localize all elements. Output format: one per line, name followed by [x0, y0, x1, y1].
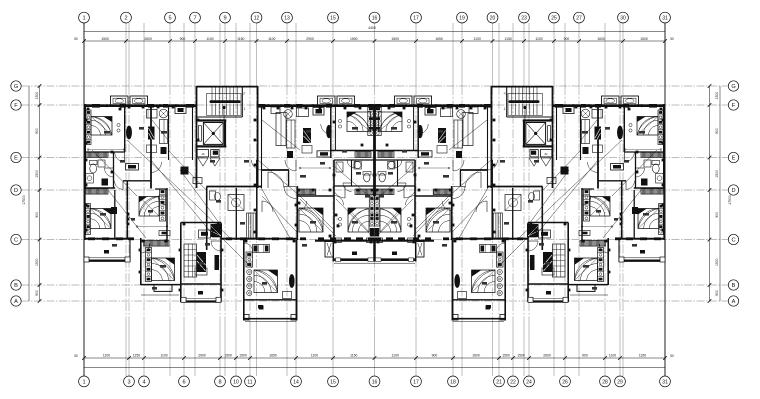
svg-text:16: 16 — [372, 16, 378, 22]
living column east wall — [220, 223, 222, 303]
door bedroom1 — [115, 152, 125, 162]
grid bubble 4 bottom — [139, 376, 150, 387]
column label blob — [258, 305, 263, 309]
tall column box — [283, 292, 292, 299]
wardrobe bedroom2 — [160, 189, 166, 221]
row bubble A left — [11, 296, 21, 306]
svg-text:22: 22 — [510, 379, 516, 385]
grid bubble 17 top — [411, 12, 422, 23]
grid line G — [22, 85, 729, 87]
balcony label blob — [104, 250, 109, 254]
bedroom north wall center-left — [297, 195, 334, 197]
axis wall upper — [373, 105, 375, 196]
svg-text:1150: 1150 — [505, 37, 512, 41]
switch pair bedroom1 — [117, 123, 120, 126]
grid bubble 15 top — [328, 12, 339, 23]
TV lens on wall — [126, 126, 131, 139]
grid bubble 15 bottom — [328, 376, 339, 387]
row C wall center-west — [221, 238, 297, 240]
bedroom2 east wall — [166, 188, 168, 240]
sofa set living west — [147, 110, 158, 119]
svg-text:27: 27 — [576, 16, 582, 22]
tall column balcony blob — [259, 306, 264, 310]
wardrobe row axis bedroom — [355, 189, 375, 195]
wc fixture — [210, 191, 216, 200]
svg-text:1500: 1500 — [715, 258, 719, 266]
bookshelf living column — [184, 244, 197, 277]
dining wall west unit — [123, 180, 151, 182]
plant center dark — [287, 151, 293, 158]
svg-text:B: B — [732, 283, 736, 289]
svg-text:8: 8 — [218, 379, 221, 385]
nightstand bedroom1b — [111, 207, 117, 214]
outer west wall — [84, 104, 86, 189]
svg-text:900: 900 — [715, 290, 719, 296]
svg-text:900: 900 — [582, 354, 588, 358]
svg-text:C: C — [14, 238, 18, 244]
svg-text:F: F — [732, 103, 736, 109]
outer west wall lower — [84, 189, 86, 240]
stair tower outer walls — [197, 86, 259, 88]
grid bubble 22 bottom — [508, 376, 519, 387]
armchair center lower — [302, 146, 312, 154]
grid line 31 (thick outer) — [664, 23, 666, 376]
grid bubble 20 top — [487, 12, 498, 23]
svg-text:G: G — [14, 84, 18, 90]
grid bubble 21 bottom — [494, 376, 505, 387]
svg-text:25: 25 — [551, 16, 557, 22]
svg-text:4400: 4400 — [368, 26, 376, 30]
grid bubble 25 top — [549, 12, 560, 23]
row E wall at core — [207, 186, 263, 188]
svg-text:1100: 1100 — [474, 37, 481, 41]
svg-text:1500: 1500 — [517, 354, 525, 358]
garden column walls — [243, 239, 245, 321]
balcony corner block 2 — [125, 257, 130, 262]
label box dining — [159, 231, 170, 236]
meter box blob — [213, 151, 218, 155]
door center-left bedroom — [297, 201, 307, 211]
grid bubble 27 top — [574, 12, 585, 23]
door bath center — [347, 160, 355, 168]
bath center fixtures — [354, 161, 361, 168]
svg-text:14: 14 — [293, 379, 299, 385]
tv table center dark — [303, 128, 311, 143]
outer top wall center segment — [258, 105, 375, 107]
svg-text:50: 50 — [74, 37, 78, 41]
wall bedrooms divider lower west — [126, 181, 128, 239]
row bubble B right — [728, 280, 738, 290]
AW box below bedroom wall — [317, 151, 331, 157]
grid bubble 26 bottom — [560, 376, 571, 387]
svg-text:1100: 1100 — [535, 37, 542, 41]
svg-text:30: 30 — [620, 16, 626, 22]
svg-text:A: A — [732, 299, 736, 305]
svg-text:1650: 1650 — [269, 354, 277, 358]
svg-text:G: G — [731, 84, 735, 90]
lower bedroom south wall — [141, 284, 181, 286]
bath divider — [113, 152, 115, 188]
bath box — [98, 160, 105, 167]
wardrobe bedroom1 — [86, 110, 91, 145]
svg-text:17500: 17500 — [728, 195, 732, 205]
svg-text:1500: 1500 — [350, 37, 358, 41]
meter box 2 — [211, 150, 219, 157]
svg-text:24: 24 — [526, 379, 532, 385]
center balcony north wall — [315, 240, 375, 242]
wardrobe lower bedroom — [146, 248, 152, 282]
bed bedroom2 — [139, 197, 159, 217]
AC condenser boxes on facade — [318, 96, 336, 106]
closet dark cell — [254, 246, 258, 252]
entry door arc center — [333, 186, 345, 198]
svg-text:11: 11 — [247, 379, 252, 385]
door bedroom2 — [158, 196, 167, 205]
living balcony corner block — [181, 297, 186, 302]
svg-text:2: 2 — [124, 16, 127, 22]
living column west wall — [180, 223, 182, 303]
right dimension lines — [709, 86, 711, 301]
grid bubble 1 top — [79, 12, 90, 23]
svg-text:31: 31 — [662, 379, 668, 385]
svg-text:900: 900 — [715, 212, 719, 218]
mid bedroom south wall — [331, 150, 375, 152]
fridge cabinet center — [276, 113, 286, 146]
bath shelf hatch center — [355, 152, 371, 158]
coffee table dark — [148, 127, 155, 140]
svg-text:1500: 1500 — [35, 92, 39, 100]
svg-text:1150: 1150 — [133, 354, 140, 358]
meter box — [197, 150, 208, 157]
shaft wall — [192, 105, 194, 160]
row bubble D right — [728, 185, 738, 195]
svg-text:1: 1 — [82, 16, 85, 22]
svg-text:1b: 1b — [201, 152, 205, 156]
svg-text:1650: 1650 — [435, 37, 443, 41]
svg-text:1500: 1500 — [715, 92, 719, 100]
row bubble G left — [11, 81, 21, 91]
svg-text:1100: 1100 — [268, 37, 275, 41]
washer box — [336, 162, 343, 172]
foyer box 2 — [213, 229, 222, 237]
grid bubble 19 top — [457, 12, 468, 23]
side table — [147, 145, 157, 153]
door bath west — [115, 181, 124, 190]
bedroom1b east wall — [114, 190, 116, 239]
balcony corner block — [84, 257, 89, 262]
wardrobe axis strip — [369, 196, 374, 226]
corridor wall stub — [262, 169, 289, 171]
svg-text:1100: 1100 — [392, 354, 399, 358]
table living column — [195, 268, 207, 275]
elevator door slot — [198, 126, 201, 142]
hall arc center — [268, 172, 284, 188]
svg-text:3: 3 — [127, 379, 130, 385]
wall outlets — [128, 106, 131, 109]
stair flight treads upper — [212, 87, 237, 101]
svg-text:2600: 2600 — [144, 37, 152, 41]
bed bedroom1 — [91, 116, 112, 135]
sofa dark living column — [197, 252, 207, 272]
row bubble C right — [728, 234, 738, 244]
hall arc center 2 — [284, 187, 296, 199]
distribution board dark — [181, 167, 189, 175]
hall label box — [126, 164, 139, 171]
wall bedroom1/living — [124, 105, 126, 152]
svg-text:12: 12 — [254, 16, 260, 22]
svg-text:1500: 1500 — [715, 170, 719, 178]
svg-text:31: 31 — [662, 16, 668, 22]
bottom dimension lines — [84, 357, 665, 359]
grid bubble 10 bottom — [231, 376, 242, 387]
door core east — [285, 160, 296, 171]
balcony pier 2 — [367, 238, 375, 243]
svg-text:E: E — [14, 156, 18, 162]
svg-text:900: 900 — [35, 128, 39, 134]
grid bubble 12 top — [251, 12, 262, 23]
long sofa center living — [287, 120, 296, 148]
svg-text:21: 21 — [496, 379, 502, 385]
grid bubble 2 top — [121, 12, 132, 23]
svg-text:2900: 2900 — [198, 354, 206, 358]
grid bubble 13 top — [282, 12, 293, 23]
living column north wall — [181, 222, 221, 224]
toilet — [90, 161, 98, 165]
grid line B — [22, 284, 729, 286]
outer top wall window line — [84, 103, 197, 105]
svg-text:B: B — [14, 283, 18, 289]
row bubble D left — [11, 185, 21, 195]
svg-text:1100: 1100 — [160, 354, 167, 358]
grid bubble 3 bottom — [124, 376, 135, 387]
svg-text:1500: 1500 — [224, 354, 232, 358]
duct wall beside mid bedroom — [334, 106, 336, 151]
stair inner outline — [207, 94, 242, 116]
grid bubble 8 bottom — [215, 376, 226, 387]
grid bubble 30 top — [618, 12, 629, 23]
long sofa east — [160, 120, 168, 144]
svg-text:900: 900 — [35, 290, 39, 296]
svg-text:29: 29 — [617, 379, 623, 385]
svg-text:1500: 1500 — [101, 37, 109, 41]
grid line D — [22, 189, 729, 191]
svg-text:A: A — [14, 299, 18, 305]
svg-text:1100: 1100 — [609, 354, 616, 358]
svg-text:1500: 1500 — [239, 354, 247, 358]
grid bubble 11 bottom — [245, 376, 256, 387]
wall living/bed mid — [330, 105, 332, 158]
room label blobs — [104, 131, 110, 134]
stair arrow dot — [223, 106, 226, 109]
row bubble E right — [728, 152, 738, 162]
svg-text:50: 50 — [74, 354, 78, 358]
grid bubble 6 bottom — [179, 376, 190, 387]
svg-text:1150: 1150 — [639, 354, 646, 358]
inner wall beside tower — [261, 105, 263, 188]
plant dark — [161, 147, 167, 154]
svg-text:16: 16 — [372, 379, 378, 385]
wardrobe row center-left — [298, 189, 316, 195]
grid bubble 17 bottom — [411, 376, 422, 387]
grid line E — [22, 157, 729, 159]
shaft box — [175, 107, 186, 114]
living balcony corner block 2 — [216, 297, 221, 302]
bed mid bedroom — [347, 112, 371, 132]
grid bubble 23 top — [519, 12, 530, 23]
wardrobe row lower bedroom — [144, 240, 170, 246]
svg-text:1100: 1100 — [311, 354, 318, 358]
door lower bedroom — [141, 244, 150, 253]
svg-text:900: 900 — [564, 37, 570, 41]
row bubble C left — [11, 234, 21, 244]
column corner block 2 — [291, 315, 297, 321]
interior dim string bed1 — [88, 149, 124, 151]
svg-text:17: 17 — [413, 16, 419, 22]
stair landing wall — [197, 116, 243, 118]
shower dark block — [102, 179, 109, 186]
grid line 1 (thick outer) — [83, 23, 85, 376]
shaft box center — [271, 107, 280, 114]
AC condenser boxes on facade — [111, 96, 129, 106]
core east wall lower — [256, 160, 258, 240]
svg-text:900: 900 — [432, 354, 438, 358]
svg-text:20: 20 — [490, 16, 496, 22]
bath west wall — [351, 160, 353, 186]
center balcony side box — [325, 242, 333, 258]
facade pier blocks — [92, 104, 100, 107]
wardrobe row bedroom1b — [86, 189, 108, 195]
door hall from core — [252, 160, 262, 170]
bath shelf hatch — [86, 152, 108, 158]
bed axis bedroom — [348, 208, 369, 232]
washer stack — [246, 252, 253, 267]
switch pair mid bedroom — [338, 119, 341, 122]
plumbing circles — [247, 269, 252, 274]
svg-text:18: 18 — [450, 379, 456, 385]
wall living/shaft — [168, 105, 170, 160]
svg-text:50: 50 — [670, 354, 674, 358]
svg-text:1600: 1600 — [597, 37, 605, 41]
hall box 2 — [193, 178, 202, 184]
outer top wall window line 2 — [258, 103, 375, 105]
svg-text:1600: 1600 — [472, 354, 480, 358]
grid bubble 5 top — [165, 12, 176, 23]
facade window mullions and piers — [97, 104, 357, 107]
closet dark cell 2 — [265, 246, 269, 252]
column corner block — [244, 315, 250, 321]
svg-text:4: 4 — [142, 379, 145, 385]
svg-text:1: 1 — [82, 379, 85, 385]
armchair center living — [297, 108, 309, 117]
nightstand at axis — [370, 228, 375, 237]
center balcony — [332, 241, 334, 262]
door axis bedroom — [334, 196, 344, 206]
grid bubble 1 bottom — [79, 376, 90, 387]
svg-text:5: 5 — [168, 16, 171, 22]
row bubble F right — [728, 100, 738, 110]
outer top wall west segment — [84, 105, 197, 107]
svg-text:1500: 1500 — [35, 170, 39, 178]
svg-text:26: 26 — [562, 379, 568, 385]
vertical grid lines 1-31 — [126, 23, 623, 376]
grid bubble 31 bottom — [660, 376, 671, 387]
balcony pier — [333, 238, 341, 243]
grid line A — [22, 300, 729, 302]
electrical circuit lines — [92, 120, 374, 268]
svg-text:F: F — [14, 103, 18, 109]
grid line C — [22, 239, 729, 241]
door swing triangles below core — [198, 158, 208, 166]
svg-text:17500: 17500 — [22, 195, 26, 205]
row bubble B left — [11, 280, 21, 290]
grid bubble 18 bottom — [448, 376, 459, 387]
sink — [86, 174, 94, 184]
living balcony divider — [181, 283, 221, 285]
svg-text:1500: 1500 — [502, 354, 510, 358]
row bubble E left — [11, 152, 21, 162]
balcony window dashes row C — [88, 237, 95, 240]
svg-text:1150: 1150 — [350, 354, 357, 358]
svg-text:7: 7 — [193, 16, 196, 22]
living column balcony — [181, 300, 221, 302]
door kitchen — [262, 201, 273, 212]
svg-text:50: 50 — [670, 37, 674, 41]
interior dim string hall — [300, 167, 330, 169]
svg-text:1500: 1500 — [391, 37, 399, 41]
bed bedroom1b — [90, 208, 111, 228]
shower cabin — [228, 195, 244, 211]
svg-text:17: 17 — [413, 379, 419, 385]
svg-text:1100: 1100 — [103, 354, 110, 358]
balcony1 north window wall — [84, 238, 131, 240]
svg-text:10: 10 — [233, 379, 239, 385]
row bubble A right — [728, 296, 738, 306]
svg-text:E: E — [732, 156, 736, 162]
svg-text:23: 23 — [521, 16, 527, 22]
entry door — [211, 241, 221, 251]
svg-text:D: D — [731, 188, 735, 194]
bed tall column — [254, 270, 278, 293]
bath center door — [343, 183, 352, 192]
door tall column — [244, 243, 253, 252]
bath north wall — [334, 159, 375, 161]
stair shaft inner wall — [241, 87, 243, 117]
wall hall/bedroom center — [333, 160, 335, 243]
tv living column — [215, 255, 220, 270]
bedroom2 north wall stub — [155, 188, 167, 190]
bed lower bedroom — [152, 258, 175, 281]
door living west — [151, 162, 162, 173]
kitchen counter — [247, 213, 257, 238]
svg-text:1: 1 — [244, 107, 246, 111]
foyer cabinet — [199, 230, 211, 238]
dimension ticks — [38, 39, 712, 360]
svg-text:15: 15 — [330, 16, 336, 22]
stair handrail bold bar — [210, 100, 241, 103]
switch symbols pair — [338, 217, 341, 220]
bath door — [105, 168, 114, 177]
svg-text:6: 6 — [182, 379, 185, 385]
balcony M label blob — [198, 291, 203, 295]
lower bedroom west wall — [140, 238, 142, 285]
kitchen sink dark — [211, 224, 223, 237]
svg-text:900: 900 — [715, 128, 719, 134]
svg-text:F: F — [244, 92, 246, 96]
left dimension lines — [28, 86, 30, 301]
svg-text:15: 15 — [330, 379, 336, 385]
grid bubble 24 bottom — [524, 376, 535, 387]
closet tall column — [253, 245, 270, 253]
